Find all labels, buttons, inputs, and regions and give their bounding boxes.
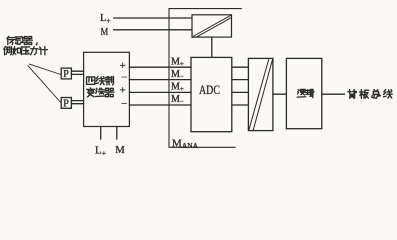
svg-text:ADC: ADC: [199, 83, 220, 97]
four-wire transmitter U1 (四线制变送器): [84, 52, 130, 126]
label M (top): [101, 27, 109, 38]
pressure sensor P1: [61, 68, 71, 80]
label M (bottom): [115, 144, 125, 156]
terminal - (channel 1): [121, 72, 127, 83]
sensor callout label (传感器，例如压力计): [4, 36, 48, 54]
supply stub M: [116, 127, 118, 140]
wire L+ to power converter: [114, 17, 192, 19]
node label M+ (1): [171, 56, 184, 68]
wire ADC to isolator (2): [232, 79, 249, 81]
svg-text:P: P: [63, 69, 69, 80]
wire M+ (1) transmitter to ADC: [129, 66, 191, 68]
wire logic to backplane bus: [322, 93, 345, 95]
wire M- (2) transmitter to ADC: [129, 104, 191, 106]
terminal + (channel 1): [120, 61, 126, 72]
optocoupler isolator U4: [248, 58, 273, 130]
ADC U3: [191, 57, 232, 131]
callout line to sensor P1: [29, 64, 61, 74]
wire isolator to logic: [273, 93, 287, 95]
wire M- (1) transmitter to ADC: [129, 79, 191, 81]
wire M to power converter: [114, 29, 192, 31]
callout line to sensor P2: [28, 66, 61, 103]
module boundary line: [169, 9, 241, 148]
svg-text:M: M: [115, 144, 125, 156]
label backplane bus (背板总线): [348, 90, 392, 99]
power converter U2 (DC/DC isolation): [192, 15, 232, 37]
terminal + (channel 2): [120, 85, 126, 96]
svg-text:−: −: [121, 72, 127, 83]
node label M+ (2): [171, 82, 184, 94]
wire ADC to isolator (4): [232, 104, 249, 106]
label L+ (bottom): [95, 144, 106, 157]
node label M- (1): [171, 69, 184, 81]
wire pair P1 to transmitter: [71, 71, 83, 74]
wire converter to ADC: [211, 37, 213, 57]
wire M+ (2) transmitter to ADC: [129, 91, 191, 93]
node label MANA: [172, 137, 199, 150]
svg-text:−: −: [121, 99, 127, 110]
svg-text:P: P: [63, 98, 69, 109]
terminal - (channel 2): [121, 99, 127, 110]
label L+ (top): [100, 13, 110, 25]
node label M- (2): [171, 94, 184, 106]
logic unit U5 (逻辑): [286, 58, 321, 128]
svg-text:+: +: [120, 85, 126, 96]
wire pair P2 to transmitter: [71, 101, 83, 104]
wire ADC to isolator (1): [232, 66, 249, 68]
supply stub L+: [100, 127, 102, 140]
svg-text:M: M: [101, 27, 109, 38]
svg-text:+: +: [120, 61, 126, 72]
wire ADC to isolator (3): [232, 91, 249, 93]
pressure sensor P2: [61, 98, 71, 110]
